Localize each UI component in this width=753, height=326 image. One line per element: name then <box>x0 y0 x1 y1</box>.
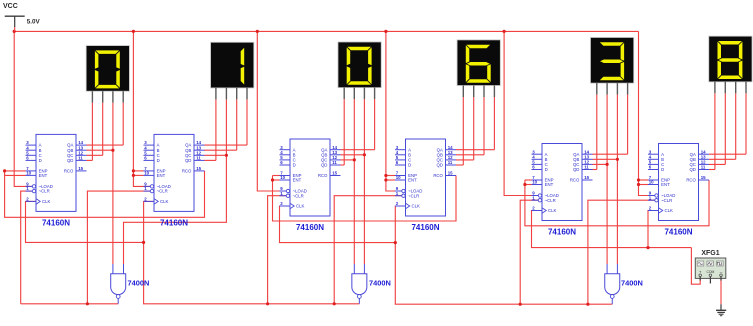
wire U4 QD to display pin1 <box>456 164 463 166</box>
wire U2 ENP to VCC <box>133 170 143 172</box>
svg-text:11: 11 <box>78 156 83 161</box>
wire riser QC col1 <box>102 103 104 156</box>
wire U3 ENT to cascade <box>273 179 280 181</box>
svg-text:15: 15 <box>332 171 337 176</box>
svg-text:CLK: CLK <box>42 199 50 204</box>
wire U4 ENT to VCC <box>386 179 395 181</box>
wire cascade U2 RCO to U1 <box>5 171 205 217</box>
counter U1 74160N <box>26 134 87 227</box>
svg-text:ENT: ENT <box>545 182 554 187</box>
svg-text:ENT: ENT <box>39 173 48 178</box>
wire riser QD col2 <box>215 99 217 160</box>
svg-text:RCO: RCO <box>570 178 580 183</box>
svg-text:RCO: RCO <box>182 169 192 174</box>
wire riser QA col6 <box>745 93 747 154</box>
svg-text:10: 10 <box>280 175 285 180</box>
wire U3 CLK <box>280 206 396 243</box>
wire U5 ENP to cascade <box>525 179 532 181</box>
svg-text:CLK: CLK <box>412 204 420 209</box>
svg-text:10: 10 <box>532 180 537 185</box>
wire U3 ~CLR drop <box>268 196 287 304</box>
wire U1 ~CLR to G1 output rail <box>21 191 33 304</box>
wire U1 CLK <box>26 201 144 242</box>
function generator XFG1 <box>695 250 726 284</box>
svg-text:ENT: ENT <box>661 182 670 187</box>
svg-text:~CLR: ~CLR <box>545 198 556 203</box>
nand gate G1 7400N <box>111 264 150 304</box>
svg-text:11: 11 <box>332 160 337 165</box>
wire VCC drop to U1 ~LOAD <box>14 31 32 186</box>
wire U1 QD to display pin1 <box>87 159 93 161</box>
wire G2 output rail / clock to U1 U2 <box>144 242 360 303</box>
wire U2 QB to display pin3 <box>205 149 237 151</box>
svg-text:10: 10 <box>144 171 149 176</box>
svg-text:RCO: RCO <box>64 169 74 174</box>
svg-text:RCO: RCO <box>433 173 443 178</box>
svg-text:D: D <box>39 158 42 163</box>
svg-text:74160N: 74160N <box>296 223 324 232</box>
svg-text:10: 10 <box>649 180 654 185</box>
wire riser QD col5 <box>596 95 598 170</box>
wire G1 input B from U2 QC <box>124 155 227 264</box>
wire riser QB col2 <box>236 99 238 150</box>
nand gate G2 7400N <box>352 264 391 304</box>
wire riser QD col4 <box>462 97 464 165</box>
svg-text:74160N: 74160N <box>411 223 439 232</box>
wire G3 output rail / clock to U3 U4 <box>395 243 612 305</box>
wire cascade U6 RCO to U5 <box>525 180 709 226</box>
svg-text:QD: QD <box>67 158 73 163</box>
wire U5 QC to display pin2 <box>593 163 608 165</box>
svg-text:15: 15 <box>584 175 589 180</box>
wire riser QB col4 <box>483 97 485 155</box>
svg-text:CLK: CLK <box>160 199 168 204</box>
counter U6 74160N <box>648 144 709 237</box>
svg-text:QD: QD <box>185 158 191 163</box>
svg-text:11: 11 <box>196 156 201 161</box>
display D6 seven-segment showing 8 <box>709 36 752 93</box>
svg-text:D: D <box>293 163 296 168</box>
svg-text:74160N: 74160N <box>160 218 188 227</box>
wire U2 ~CLR drop <box>87 191 150 304</box>
wire U6 ENT to VCC <box>639 184 649 186</box>
svg-text:ENT: ENT <box>157 173 166 178</box>
wire riser QD col1 <box>91 103 93 161</box>
wire G3 input A from U5 QC <box>606 164 608 264</box>
svg-text:74160N: 74160N <box>42 218 70 227</box>
wire U3 QB to display pin3 <box>341 154 365 156</box>
wire riser QD col6 <box>714 93 716 169</box>
wire VCC drop to U4 ENP/ENT/~LOAD <box>386 31 402 191</box>
wire U4 ENP to VCC <box>386 175 395 177</box>
wire riser QC col6 <box>724 93 726 164</box>
display D5 seven-segment showing 3 <box>591 38 634 95</box>
wire U2 QA to display pin4 <box>205 144 248 146</box>
wire U1 ENP to cascade <box>5 170 26 172</box>
svg-text:CLK: CLK <box>665 208 673 213</box>
wire riser QA col3 <box>374 99 376 150</box>
wire U2 QC to display pin2 <box>205 154 227 156</box>
svg-text:~CLR: ~CLR <box>661 198 672 203</box>
wire cascade U4 RCO to U3 <box>273 176 457 222</box>
wire U1 QC to display pin2 <box>87 154 103 156</box>
display D4 seven-segment showing 6 <box>457 40 500 97</box>
wire U3 ENP to cascade <box>273 175 280 177</box>
wire riser QC col4 <box>473 97 475 160</box>
svg-text:QD: QD <box>321 163 327 168</box>
wire riser QA col2 <box>246 99 248 145</box>
svg-text:10: 10 <box>26 171 31 176</box>
svg-text:15: 15 <box>448 171 453 176</box>
display D2 seven-segment showing 1 <box>211 42 254 99</box>
wire XFG1 + to clock line <box>691 248 700 285</box>
svg-text:COM: COM <box>706 270 714 274</box>
wire U4 CLK drop <box>395 206 405 243</box>
svg-text:15: 15 <box>701 175 706 180</box>
wire VCC drop to U5 ~LOAD <box>504 31 538 195</box>
wire G3 input B from U5 QB <box>616 159 618 264</box>
svg-text:10: 10 <box>396 175 401 180</box>
svg-text:D: D <box>545 167 548 172</box>
svg-text:11: 11 <box>701 165 706 170</box>
svg-text:D: D <box>157 158 160 163</box>
wire XFG1 - to ground <box>720 278 722 305</box>
wire U5 ~CLR drop <box>520 200 538 304</box>
wire riser QB col5 <box>616 95 618 160</box>
svg-text:7400N: 7400N <box>621 279 643 288</box>
wire U2 ENT to VCC <box>133 174 143 176</box>
svg-text:QD: QD <box>573 167 579 172</box>
wire riser QC col3 <box>353 99 355 160</box>
svg-text:CLK: CLK <box>296 204 304 209</box>
svg-text:QD: QD <box>436 163 442 168</box>
power VCC symbol <box>3 3 41 31</box>
wire VCC net rail <box>14 30 638 32</box>
svg-text:~CLR: ~CLR <box>39 189 50 194</box>
svg-text:15: 15 <box>78 166 83 171</box>
svg-text:7400N: 7400N <box>369 279 391 288</box>
svg-text:74160N: 74160N <box>548 228 576 237</box>
svg-text:74160N: 74160N <box>664 228 692 237</box>
wire U4 QC to display pin2 <box>456 159 474 161</box>
wire riser QC col2 <box>225 99 227 155</box>
wire U5 QA to display pin4 <box>593 153 628 155</box>
wire U5 QB to display pin3 <box>593 158 618 160</box>
wire riser QD col3 <box>343 99 345 165</box>
svg-text:RCO: RCO <box>686 178 696 183</box>
wire U6 QC to display pin2 <box>709 163 725 165</box>
wire G2 input B from U3 QB <box>363 155 365 264</box>
wire VCC drop to U6 ENP/ENT/~LOAD <box>639 31 655 195</box>
svg-text:15: 15 <box>196 166 201 171</box>
svg-text:5.0V: 5.0V <box>27 18 41 25</box>
wire U1 ENT to cascade <box>5 174 26 176</box>
counter U3 74160N <box>280 139 341 232</box>
wire riser QB col3 <box>363 99 365 155</box>
display D1 seven-segment showing 0 <box>86 46 129 103</box>
wire riser QA col4 <box>493 97 495 150</box>
wire G1 input A from U1 QB <box>112 150 114 264</box>
wire riser QA col5 <box>627 95 629 155</box>
wire U4 QA to display pin4 <box>456 149 494 151</box>
svg-text:11: 11 <box>448 160 453 165</box>
wire U6 QD to display pin1 <box>709 169 715 171</box>
svg-text:XFG1: XFG1 <box>701 250 719 257</box>
wire U5 ENT to cascade <box>525 184 532 186</box>
svg-text:CLK: CLK <box>548 208 556 213</box>
wire U4 ~CLR drop <box>334 196 402 304</box>
svg-text:~CLR: ~CLR <box>408 193 419 198</box>
wire VCC drop to U2 ENP/ENT/~LOAD <box>133 31 150 186</box>
svg-text:~CLR: ~CLR <box>293 193 304 198</box>
ground <box>716 304 726 315</box>
svg-text:QD: QD <box>689 167 695 172</box>
wire U5 CLK <box>532 211 692 248</box>
svg-text:+: + <box>699 269 702 274</box>
svg-text:ENT: ENT <box>408 178 417 183</box>
counter U2 74160N <box>144 134 205 227</box>
svg-text:RCO: RCO <box>318 173 328 178</box>
counter U5 74160N <box>532 144 593 237</box>
wire G1 output rail <box>21 303 119 305</box>
wire U1 QB to display pin3 <box>87 149 113 151</box>
wire riser QB col1 <box>112 103 114 151</box>
svg-text:7400N: 7400N <box>128 279 150 288</box>
svg-text:ENT: ENT <box>293 178 302 183</box>
svg-text:~CLR: ~CLR <box>157 189 168 194</box>
wire riser QB col6 <box>735 93 737 159</box>
wire U6 QB to display pin3 <box>709 158 736 160</box>
wire U6 CLK drop <box>648 211 659 248</box>
wire U1 QA to display pin4 <box>87 144 124 146</box>
svg-text:D: D <box>408 163 411 168</box>
wire G2 input A from U3 QC <box>353 160 355 264</box>
wire U2 QD to display pin1 <box>205 159 216 161</box>
wire U3 QD to display pin1 <box>341 164 345 166</box>
display D3 seven-segment showing 0 <box>338 42 381 99</box>
wire U6 QA to display pin4 <box>709 153 746 155</box>
svg-text:VCC: VCC <box>3 3 18 10</box>
wire U2 CLK drop <box>144 201 154 242</box>
wire riser QA col1 <box>122 103 124 145</box>
wire U3 QA to display pin4 <box>341 149 375 151</box>
nand gate G3 7400N <box>605 264 643 304</box>
wire U6 ENP to VCC <box>639 179 649 181</box>
wire U6 ~CLR drop <box>588 200 655 304</box>
wire VCC drop to U3 ~LOAD <box>257 31 286 191</box>
svg-text:D: D <box>661 167 664 172</box>
wire U3 QC to display pin2 <box>341 159 355 161</box>
counter U4 74160N <box>395 139 456 232</box>
wire U4 QB to display pin3 <box>456 154 484 156</box>
wire riser QC col5 <box>606 95 608 165</box>
wire U5 QD to display pin1 <box>593 169 597 171</box>
svg-text:11: 11 <box>584 165 589 170</box>
